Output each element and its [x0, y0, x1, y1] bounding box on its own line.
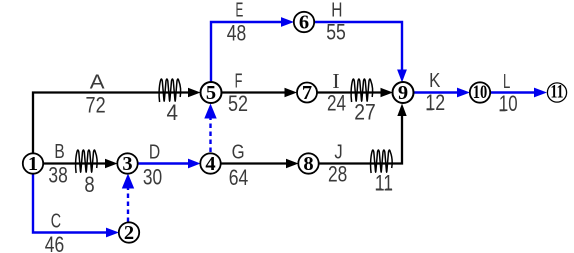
- svg-text:B: B: [54, 141, 64, 163]
- svg-text:30: 30: [143, 164, 162, 189]
- svg-text:I: I: [332, 69, 340, 93]
- svg-text:J: J: [334, 142, 342, 164]
- svg-text:1: 1: [28, 153, 38, 175]
- svg-text:48: 48: [227, 21, 247, 46]
- svg-text:28: 28: [328, 161, 347, 186]
- svg-text:64: 64: [229, 165, 249, 190]
- svg-text:F: F: [235, 70, 243, 92]
- svg-text:4: 4: [205, 153, 215, 175]
- svg-text:27: 27: [354, 100, 376, 125]
- svg-text:4: 4: [167, 100, 179, 125]
- svg-text:7: 7: [302, 82, 312, 104]
- svg-text:11: 11: [551, 83, 564, 103]
- svg-text:2: 2: [124, 222, 134, 244]
- svg-text:8: 8: [303, 153, 313, 175]
- svg-text:38: 38: [48, 162, 67, 187]
- svg-text:E: E: [236, 0, 244, 22]
- svg-text:3: 3: [122, 153, 132, 175]
- svg-text:H: H: [331, 0, 342, 22]
- svg-text:8: 8: [84, 172, 94, 197]
- svg-text:46: 46: [45, 232, 64, 253]
- svg-text:A: A: [90, 71, 106, 93]
- svg-text:12: 12: [425, 90, 445, 115]
- svg-text:5: 5: [206, 82, 216, 104]
- svg-text:72: 72: [86, 93, 106, 118]
- svg-text:9: 9: [398, 82, 408, 104]
- svg-text:G: G: [232, 142, 245, 164]
- svg-text:K: K: [429, 70, 441, 92]
- svg-text:24: 24: [327, 91, 346, 116]
- svg-text:L: L: [503, 71, 510, 93]
- svg-text:C: C: [51, 210, 61, 232]
- svg-text:52: 52: [228, 91, 248, 116]
- svg-text:55: 55: [326, 20, 346, 45]
- svg-text:11: 11: [375, 170, 393, 195]
- svg-text:D: D: [149, 141, 160, 163]
- svg-text:10: 10: [499, 91, 518, 116]
- svg-text:10: 10: [473, 82, 488, 103]
- svg-text:6: 6: [299, 12, 309, 34]
